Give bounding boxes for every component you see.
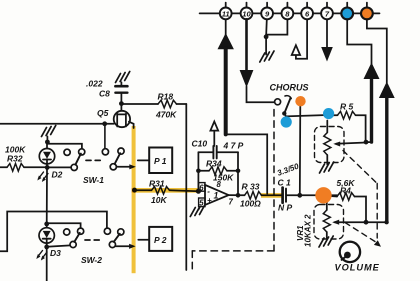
svg-text:Q5: Q5 <box>97 108 109 118</box>
svg-text:R18: R18 <box>158 92 174 102</box>
svg-text:-: - <box>207 187 210 196</box>
wire: chorus line down to C1 node <box>299 104 302 195</box>
label SW-1 <box>83 175 104 185</box>
svg-text:C 1: C 1 <box>278 178 292 188</box>
svg-text:R 33: R 33 <box>242 182 260 192</box>
svg-text:SW-1: SW-1 <box>83 175 104 185</box>
ground (above C8) <box>116 72 130 83</box>
highlighter: R33-C1 trace <box>261 193 282 198</box>
svg-text:10KAX 2: 10KAX 2 <box>304 214 313 247</box>
label SW-2 <box>81 255 102 265</box>
svg-text:4 7 P: 4 7 P <box>223 141 244 151</box>
junction: D2 cathode <box>45 165 50 170</box>
svg-text:CHORUS: CHORUS <box>270 83 309 93</box>
power arrow (down) on pin 10 line <box>240 19 254 87</box>
connector pin (orange) <box>361 3 373 20</box>
svg-text:100Ω: 100Ω <box>240 199 261 209</box>
junction: left wire branch <box>102 121 107 126</box>
wire: pin 7 down <box>326 19 328 48</box>
svg-text:N P: N P <box>278 203 293 213</box>
svg-text:VOLUME: VOLUME <box>335 263 380 273</box>
wire: R33 to C1 (highlighted) <box>262 194 282 196</box>
wire: pin 8 L-bend <box>266 19 287 34</box>
wire: lower pot wiper line <box>332 220 387 225</box>
connector pin (blue) <box>341 3 353 20</box>
svg-text:D3: D3 <box>50 248 61 258</box>
wire: D3 anode to SW-2 <box>47 223 81 228</box>
wire: D3 cathode to SW-2 mover <box>47 245 71 246</box>
gang link arrowhead <box>374 240 381 247</box>
wire: connector row bus <box>200 12 380 14</box>
mechanical link SW-1 <box>86 159 102 161</box>
junction: D2 anode <box>45 140 50 145</box>
junction: R31 at yellow node <box>132 188 137 193</box>
svg-text:P 2: P 2 <box>154 235 167 245</box>
dashed box lower pot <box>314 205 344 240</box>
wire: pin6 feedback vertical <box>197 152 199 189</box>
junction: C8/R18/Q5 <box>119 101 124 106</box>
svg-text:7: 7 <box>229 198 234 207</box>
switch SW-2 unit 1 <box>64 228 84 248</box>
resistor R34 150K <box>198 159 238 183</box>
junction: R34 left <box>196 169 201 174</box>
wire: SW-1 mover to node (arrow) <box>116 164 135 169</box>
svg-text:.022: .022 <box>86 79 103 89</box>
highlighter: vertical signal trace <box>132 126 136 273</box>
junction pins 9/8 <box>264 34 269 39</box>
svg-text:10K: 10K <box>151 195 167 205</box>
switch SW-1 unit 1 <box>64 149 85 171</box>
wire: chorus mover to pot top (blue net) <box>285 114 328 117</box>
supply arrow (small, open) pin 6 <box>292 45 300 55</box>
marker dot orange (C1 out node) <box>315 187 331 203</box>
connector pin 6 <box>301 3 313 20</box>
junction: R4 on wiper line <box>364 220 369 225</box>
LED light arrows D2 <box>37 172 48 182</box>
svg-text:470K: 470K <box>155 110 177 120</box>
svg-text:3.3/50: 3.3/50 <box>276 161 300 177</box>
capacitor C1 3.3/50 NP <box>276 161 337 212</box>
svg-text:10: 10 <box>242 10 251 19</box>
marker dot blue (chorus mover) <box>281 116 292 127</box>
connector pin 9 <box>261 3 273 20</box>
connector pin 11 <box>220 3 232 20</box>
box P2 <box>138 227 172 251</box>
svg-text:D2: D2 <box>52 170 63 180</box>
wire: pin 11 line to R33/C1 node <box>226 134 268 193</box>
power arrow (up) on orange line <box>379 82 395 223</box>
svg-text:+: + <box>207 196 212 205</box>
box P1 <box>138 148 172 174</box>
junction: op-amp pin 6 node <box>196 189 201 194</box>
wire: blue pin to upper pot wiper <box>347 19 371 64</box>
LED D3 <box>39 228 61 281</box>
resistor R33 100ohm <box>229 182 262 209</box>
svg-text:SW-2: SW-2 <box>81 255 102 265</box>
op-amp U1 (1/2) <box>199 180 234 208</box>
capacitor C8 .022 <box>86 79 127 105</box>
power arrow (up) on pin 11 line <box>218 19 234 134</box>
LED light arrows D3 <box>36 251 47 261</box>
wire: orange pin right-side run <box>367 19 387 83</box>
resistor R31 10K <box>135 179 199 206</box>
supply arrow (open) above C10 <box>210 122 218 147</box>
ground (lower pot) <box>319 236 333 247</box>
connector pin 10 <box>241 3 253 20</box>
svg-text:6: 6 <box>199 183 204 192</box>
mechanical gang link (dash) <box>343 151 377 243</box>
highlighter: R31 trace <box>132 188 198 193</box>
wire: pin 9 down <box>265 19 268 37</box>
dashed box upper pot <box>315 127 345 163</box>
resistor R5 <box>328 102 366 143</box>
junction: D3 cathode <box>44 245 49 250</box>
ground (pins 9/8) <box>260 51 274 62</box>
wire: D2 to D3 vertical <box>46 167 48 228</box>
wire: wiper arrow upper pot <box>333 142 366 147</box>
mechanical link SW-2 <box>85 239 101 241</box>
capacitor C10 47P <box>192 139 244 159</box>
wire: into wiper node A <box>366 141 372 143</box>
resistor R4 5.6K <box>330 178 366 222</box>
resistor R32 100K <box>0 145 47 172</box>
resistor R18 470K <box>121 92 186 120</box>
junction: D3 anode <box>44 222 49 227</box>
junction: output node <box>236 193 241 198</box>
wire: bottom-left input to SW-2 <box>0 212 107 252</box>
arrow (down) pin 7 <box>321 47 333 62</box>
switch SW-2 unit 2 <box>104 228 124 248</box>
svg-text:C8: C8 <box>99 89 110 99</box>
svg-text:R 5: R 5 <box>340 102 354 112</box>
label VR1 10KAX2 <box>296 214 313 247</box>
VOLUME knob <box>335 242 380 273</box>
wire: D2 cathode to SW-1 mover <box>47 166 71 168</box>
connector pin 8 <box>282 3 294 20</box>
connector pin 7 <box>321 3 333 20</box>
junction: node A (upper wiper) <box>364 140 369 145</box>
ground (op-amp pin 5) <box>190 206 204 217</box>
svg-text:R32: R32 <box>7 154 23 164</box>
marker dot blue (upper pot top) <box>323 108 334 119</box>
marker dot orange (chorus contact) <box>295 96 305 106</box>
wire: pin 6 L-bend <box>296 19 307 59</box>
svg-text:150K: 150K <box>213 173 234 183</box>
potentiometer VR1-b (lower) <box>323 195 330 238</box>
svg-text:C10: C10 <box>192 139 208 149</box>
potentiometer VR1-a (upper) <box>324 121 331 165</box>
switch CHORUS <box>270 83 309 116</box>
ground (above D2) <box>42 126 56 137</box>
wire: D2 anode to SW-1 <box>47 144 82 149</box>
junction: R34 right <box>236 169 241 174</box>
svg-text:11: 11 <box>222 10 230 19</box>
wire: left input to Q5 <box>0 123 114 125</box>
ground (upper pot) <box>320 162 334 173</box>
junction: chorus line at C1 out <box>297 193 302 198</box>
wire: SW-2 mover to node (arrow) <box>116 244 136 249</box>
power arrow (up) on blue line <box>364 63 380 143</box>
transistor Q5 <box>97 104 134 128</box>
svg-text:R31: R31 <box>149 179 165 189</box>
svg-text:R34: R34 <box>206 159 222 169</box>
dashed enclosure boundary <box>192 110 274 273</box>
svg-text:1: 1 <box>214 191 219 201</box>
wire: R18 long vertical <box>185 104 187 270</box>
LED D2 <box>39 143 62 180</box>
wire: pin 10 to CHORUS switch <box>247 87 275 103</box>
junction: corner on wiper line <box>384 220 388 224</box>
switch SW-1 unit 2 <box>102 124 124 170</box>
svg-text:R4: R4 <box>340 186 351 196</box>
wire to ground <box>265 37 267 55</box>
wire: feedback right vertical <box>237 152 239 195</box>
svg-text:P 1: P 1 <box>154 156 167 166</box>
